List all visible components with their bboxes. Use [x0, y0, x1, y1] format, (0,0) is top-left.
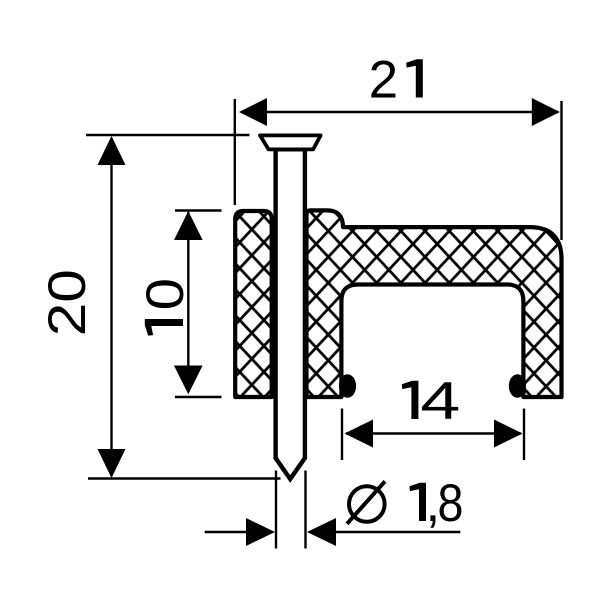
dimension 20: bottom arrowhead — [98, 449, 126, 478]
dimension 14: dimension line — [346, 432, 521, 434]
nail head — [260, 135, 321, 149]
clip left bar (cross-hatched) — [235, 211, 272, 397]
dimension 10: dimension line — [187, 212, 189, 392]
svg-text:8: 8 — [438, 473, 464, 532]
dimension 10: bottom extension line — [175, 396, 222, 398]
dimension 10: top arrowhead — [174, 211, 203, 240]
dimension 1.8: right arrowhead — [307, 518, 336, 546]
dimension 10: top extension line — [175, 209, 222, 211]
dimension 10: bottom arrowhead — [174, 366, 203, 395]
svg-text:0: 0 — [135, 278, 194, 310]
clip main body with cable channel (cross-hatched) — [307, 210, 562, 397]
dimension 20: top extension line — [86, 134, 250, 136]
clip right channel foot (filled lip) — [509, 374, 526, 398]
dimension 14: left extension line — [341, 409, 343, 461]
dimension 21: right extension line — [560, 101, 562, 240]
dimension 1.8: right extension line — [304, 471, 306, 549]
svg-text:2: 2 — [369, 51, 398, 110]
dimension 21: left arrowhead — [239, 98, 267, 126]
dimension 20: dimension line — [110, 138, 112, 476]
dimension 21: right arrowhead — [532, 98, 560, 126]
dimension 1.8: left arrowhead — [246, 518, 275, 546]
dimension 14: right arrowhead — [494, 420, 523, 448]
dimension 1.8: diameter symbol — [347, 481, 385, 524]
dimension 14: right extension line — [523, 409, 525, 461]
dimension 21: dimension line — [241, 111, 558, 113]
svg-text:4: 4 — [420, 372, 460, 431]
dimension 1.8: left leader line — [205, 531, 250, 533]
dimension 20: top arrowhead — [98, 136, 126, 165]
dimension 21: left extension line — [234, 99, 236, 205]
svg-text:20: 20 — [38, 269, 97, 336]
dimension 14: left arrowhead — [345, 420, 374, 448]
dimension 20: bottom extension line — [88, 477, 281, 479]
dimension 1.8: left extension line — [275, 471, 277, 549]
dimension 1.8: right leader line — [332, 531, 460, 533]
nail shaft with point — [276, 149, 305, 479]
dimension 1.8: label — [409, 483, 426, 521]
clip left channel foot (filled lip) — [339, 374, 356, 398]
